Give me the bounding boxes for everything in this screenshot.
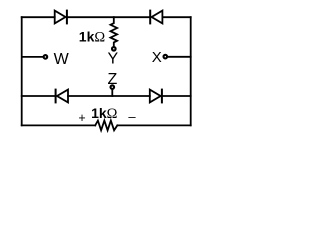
svg-text:1kΩ: 1kΩ [79,29,106,46]
wire top-middle segment [67,16,150,18]
node X terminal circle [164,55,168,59]
svg-text:+: + [78,111,85,125]
node Z terminal circle [111,85,115,89]
wire bottom-right segment [118,124,191,126]
resistor R2 1k horizontal [95,121,117,131]
wire right vertical [190,17,192,125]
wire middle-left segment [22,95,56,97]
wire top-right segment [162,16,190,18]
diode D2 top-right (points left) [150,11,162,24]
diode D4 middle-right (points right) [150,90,162,103]
node W terminal circle [44,55,48,59]
svg-text:W: W [54,51,70,68]
svg-text:Z: Z [108,71,118,88]
diode D3 middle-left (points left) [56,90,68,103]
wire left vertical [21,17,23,125]
wire middle-center segment [68,95,150,97]
svg-text:X: X [152,49,162,66]
wire middle-right segment [162,95,191,97]
resistor R1 1k vertical [111,17,118,46]
wire top-left segment [22,16,55,18]
node Y terminal circle [112,47,116,51]
wire W lead [22,56,43,58]
svg-text:–: – [128,109,136,124]
svg-text:Y: Y [107,51,118,68]
wire bottom-left segment [22,124,96,126]
diode D1 top-left (points right) [55,11,67,24]
wire X lead [168,56,191,58]
wire Z stub [111,89,113,96]
svg-text:1kΩ: 1kΩ [91,105,118,122]
